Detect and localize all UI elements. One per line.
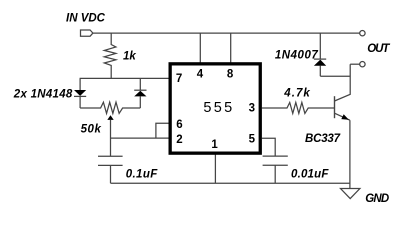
svg-text:IN VDC: IN VDC xyxy=(66,13,106,25)
svg-text:0.1uF: 0.1uF xyxy=(126,169,159,181)
svg-text:3: 3 xyxy=(249,103,255,115)
svg-text:1: 1 xyxy=(211,139,218,151)
svg-text:4.7k: 4.7k xyxy=(283,88,311,100)
svg-text:555: 555 xyxy=(203,100,234,116)
svg-text:2x 1N4148: 2x 1N4148 xyxy=(13,88,73,100)
svg-text:6: 6 xyxy=(176,119,182,131)
svg-text:1k: 1k xyxy=(123,51,136,63)
svg-text:2: 2 xyxy=(176,134,182,146)
svg-text:GND: GND xyxy=(365,193,389,205)
svg-text:1N4007: 1N4007 xyxy=(275,49,318,61)
svg-text:0.01uF: 0.01uF xyxy=(291,169,329,181)
svg-text:8: 8 xyxy=(227,69,234,81)
svg-text:OUT: OUT xyxy=(367,43,390,55)
svg-text:5: 5 xyxy=(249,133,256,145)
svg-text:50k: 50k xyxy=(81,124,102,136)
svg-text:4: 4 xyxy=(197,69,204,81)
svg-text:BC337: BC337 xyxy=(305,133,341,145)
svg-text:7: 7 xyxy=(176,73,182,85)
